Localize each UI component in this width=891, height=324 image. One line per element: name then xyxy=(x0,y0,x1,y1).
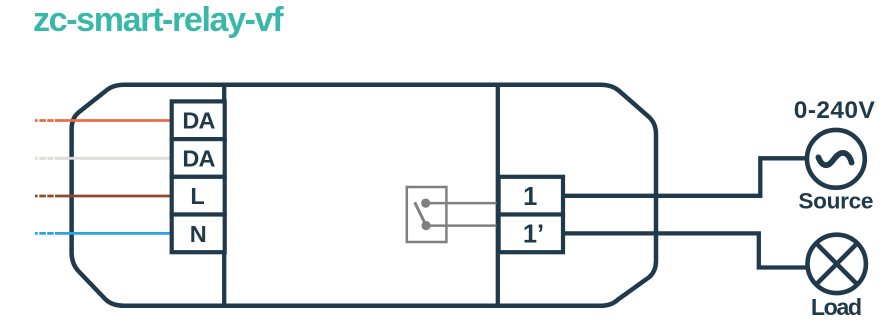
svg-text:zc-smart-relay-vf: zc-smart-relay-vf xyxy=(33,1,284,39)
svg-text:DA: DA xyxy=(182,145,215,171)
svg-text:DA: DA xyxy=(182,108,215,134)
svg-text:0-240V: 0-240V xyxy=(794,97,876,124)
svg-text:1’: 1’ xyxy=(523,220,544,248)
svg-text:L: L xyxy=(190,183,204,209)
svg-text:Load: Load xyxy=(811,294,861,320)
svg-text:1: 1 xyxy=(523,183,537,211)
svg-text:Source: Source xyxy=(798,188,873,213)
svg-text:N: N xyxy=(190,221,207,247)
